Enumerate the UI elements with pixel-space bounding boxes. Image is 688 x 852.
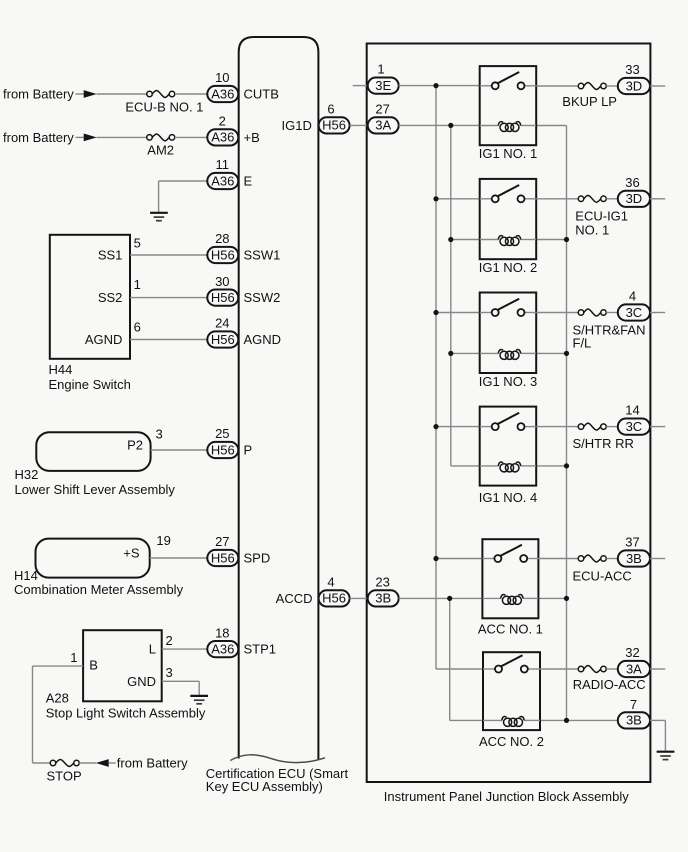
wire coil feed bus (vertical x=450.8) — [450, 125, 452, 466]
svg-text:IG1 NO. 1: IG1 NO. 1 — [479, 146, 538, 161]
svg-text:27: 27 — [375, 101, 389, 116]
switch lever IG1 NO. 3 — [498, 299, 520, 310]
svg-text:14: 14 — [625, 403, 639, 418]
wire fuse to connector (S/HTR&FAN F/L row) — [606, 312, 618, 314]
wire relay to fuse (RADIO-ACC row) — [540, 668, 578, 670]
svg-text:STOP: STOP — [47, 769, 82, 784]
svg-text:7: 7 — [630, 697, 637, 712]
svg-text:ECU-B NO. 1: ECU-B NO. 1 — [125, 100, 203, 115]
svg-text:GND: GND — [127, 674, 156, 689]
wire STOP fuse to arrow — [79, 762, 96, 764]
wire IG1 NO. 1 switch feed inside box — [480, 85, 492, 87]
svg-text:3B: 3B — [375, 591, 391, 606]
svg-text:P: P — [244, 443, 253, 458]
wire switch feed ACC NO.2 — [436, 668, 483, 670]
wire fuse to connector (ECU-ACC row) — [606, 558, 618, 560]
wire output stub (S/HTR RR row) — [650, 426, 665, 428]
svg-text:H56: H56 — [211, 247, 235, 262]
wire IG1 NO. 1 coil feed inside box — [480, 125, 499, 127]
svg-text:6: 6 — [134, 319, 141, 334]
wire IG1 NO. 3 coil feed inside box — [480, 352, 499, 354]
switch lever IG1 NO. 1 — [498, 72, 520, 83]
svg-text:H32: H32 — [15, 467, 39, 482]
coil IG1 NO. 4 — [498, 462, 520, 472]
wire coil output ACC NO.2 to 3B pin 7 — [540, 719, 618, 721]
svg-text:A36: A36 — [211, 86, 234, 101]
svg-text:ACCD: ACCD — [276, 591, 313, 606]
connector A36 pin 18 (STP1) — [207, 625, 238, 657]
wire ACC NO. 2 coil feed inside box — [483, 719, 502, 721]
fuse ECU-ACC — [573, 555, 632, 584]
wire relay to fuse (ECU-IG1 NO. 1 row) — [536, 198, 578, 200]
svg-text:SSW2: SSW2 — [244, 290, 281, 305]
svg-text:3A: 3A — [626, 661, 642, 676]
connector 3A pin 32 (RADIO-ACC) — [618, 645, 650, 677]
svg-text:H56: H56 — [322, 591, 346, 606]
svg-text:18: 18 — [215, 625, 229, 640]
svg-text:A28: A28 — [46, 690, 69, 705]
svg-text:ECU-IG1: ECU-IG1 — [575, 208, 628, 223]
fuse STOP — [47, 760, 82, 784]
svg-text:Stop Light Switch Assembly: Stop Light Switch Assembly — [46, 706, 206, 721]
coil ACC NO. 2 — [502, 717, 524, 727]
svg-text:E: E — [244, 174, 253, 189]
svg-text:+B: +B — [244, 130, 260, 145]
connector 3B pin 37 (ECU-ACC) — [618, 535, 650, 567]
relay ACC NO. 2 — [483, 652, 540, 730]
relay IG1 NO. 1 — [480, 66, 537, 145]
wire ACC coil feed (vertical x=449.7) — [449, 598, 451, 720]
relay IG1 NO. 3 — [480, 293, 537, 374]
svg-text:3E: 3E — [375, 78, 391, 93]
svg-text:CUTB: CUTB — [244, 87, 279, 102]
fuse S/HTR RR — [573, 423, 634, 451]
junction 3B/ACC-1 coil — [447, 596, 452, 601]
wire switch feed IG1 NO.4 — [436, 426, 480, 428]
wire A28 L to A36 (STP1) — [162, 648, 208, 650]
connector 3B pin 23 — [368, 574, 399, 606]
svg-text:Instrument Panel Junction Bloc: Instrument Panel Junction Block Assembly — [384, 789, 629, 804]
wire coil output IG1 NO.4 — [536, 465, 566, 467]
svg-text:3C: 3C — [626, 419, 643, 434]
svg-text:IG1 NO. 4: IG1 NO. 4 — [479, 490, 538, 505]
wire IG1 NO. 4 switch feed inside box — [480, 426, 492, 428]
wire arrow to fuse (ECU-B NO. 1 row) — [97, 93, 147, 95]
svg-text:1: 1 — [134, 277, 141, 292]
wire output stub (ECU-IG1 NO. 1 row) — [650, 198, 665, 200]
wire stub into 3E — [353, 85, 368, 87]
switch lever IG1 NO. 2 — [498, 185, 520, 196]
svg-text:SS2: SS2 — [98, 290, 123, 305]
wire coil feed IG1 NO.3 — [451, 352, 480, 354]
wire ACC NO. 2 switch output inside box — [528, 668, 540, 670]
svg-text:25: 25 — [215, 426, 229, 441]
coil IG1 NO. 3 — [498, 350, 520, 360]
connector H56 pin 4 (ACCD) — [319, 574, 350, 606]
wire fuse to connector (RADIO-ACC row) — [606, 668, 618, 670]
svg-text:H56: H56 — [322, 118, 346, 133]
svg-text:B: B — [89, 658, 98, 673]
junction 3A/IG1-1 coil — [448, 123, 453, 128]
svg-text:SS1: SS1 — [98, 247, 123, 262]
fuse ECU-IG1 NO. 1 — [575, 195, 628, 237]
ground (junction block return) — [657, 752, 675, 760]
wire coil output ACC NO.1 — [538, 597, 566, 599]
fuse ECU-B NO. 1 — [125, 91, 203, 115]
connector 3C pin 14 (S/HTR RR) — [618, 403, 650, 435]
fuse S/HTR&FAN F/L — [573, 309, 646, 350]
switch lever ACC NO. 2 — [501, 655, 523, 666]
arrow from Battery (AM2 row) — [84, 134, 97, 142]
engine switch H44 — [49, 235, 131, 392]
svg-text:36: 36 — [625, 175, 639, 190]
svg-text:H44: H44 — [49, 362, 73, 377]
wire switch feed IG1 NO.3 — [436, 312, 480, 314]
svg-text:30: 30 — [215, 274, 229, 289]
svg-text:H56: H56 — [211, 442, 235, 457]
svg-text:P2: P2 — [127, 438, 143, 453]
svg-text:Lower Shift Lever Assembly: Lower Shift Lever Assembly — [15, 482, 176, 497]
svg-text:from Battery: from Battery — [3, 130, 74, 145]
wire H44 to H56 (AGND) — [130, 339, 207, 341]
relay ACC NO. 1 — [482, 539, 538, 618]
wire IG1 NO. 4 switch output inside box — [525, 426, 537, 428]
wire switch feed IG1 NO.2 — [436, 198, 480, 200]
switch contacts ACC NO. 1 — [494, 555, 501, 562]
wire fuse to connector (S/HTR RR row) — [606, 426, 618, 428]
svg-text:28: 28 — [215, 231, 229, 246]
wire coil feed IG1 NO.2 — [451, 239, 480, 241]
junction ret ACC-1 — [564, 596, 569, 601]
connector A36 pin 2 (+B) — [207, 114, 238, 146]
svg-text:AM2: AM2 — [147, 143, 174, 158]
junction 3E/IG1-1 — [433, 83, 438, 88]
svg-text:37: 37 — [625, 535, 639, 550]
svg-text:S/HTR RR: S/HTR RR — [573, 436, 634, 451]
svg-text:24: 24 — [215, 316, 229, 331]
junction IG1-3 coil — [448, 351, 453, 356]
junction ret IG1-3 — [564, 351, 569, 356]
connector 3C pin 4 (S/HTR&FAN F/L) — [618, 289, 650, 321]
svg-text:11: 11 — [216, 157, 230, 172]
wire IG1 NO. 1 coil output inside box — [521, 125, 537, 127]
wire relay to fuse (BKUP LP row) — [536, 85, 578, 87]
connector 3E pin 1 — [368, 61, 399, 93]
connector H56 pin 6 (IG1D) — [319, 101, 350, 133]
svg-text:3D: 3D — [626, 191, 643, 206]
switch lever ACC NO. 1 — [500, 545, 522, 556]
svg-text:AGND: AGND — [244, 332, 282, 347]
wire coil output IG1 NO.2 — [536, 239, 566, 241]
ground (A28 GND) — [190, 696, 208, 704]
wire relay to fuse (S/HTR&FAN F/L row) — [536, 312, 578, 314]
svg-text:33: 33 — [625, 62, 639, 77]
lower shift lever assembly H32 — [15, 432, 176, 497]
wire 3A row to relay IG1 NO.1 coil — [399, 124, 480, 126]
svg-text:6: 6 — [327, 101, 334, 116]
connector H56 pin 28 (SSW1) — [207, 231, 238, 263]
wire IG1 NO. 3 switch feed inside box — [480, 312, 492, 314]
svg-text:SPD: SPD — [244, 551, 271, 566]
svg-text:IG1 NO. 3: IG1 NO. 3 — [479, 374, 538, 389]
wire H32 to H56 (P) — [151, 449, 208, 451]
svg-text:ECU-ACC: ECU-ACC — [573, 569, 632, 584]
wire ACC NO. 1 coil feed inside box — [482, 597, 501, 599]
wire ACC NO. 1 switch feed inside box — [482, 558, 494, 560]
wire 3B row to ACC NO.1 coil — [399, 597, 483, 599]
Instrument Panel Junction Block Assembly outline — [367, 44, 651, 783]
svg-text:BKUP LP: BKUP LP — [562, 94, 617, 109]
wire IG1 NO. 2 coil feed inside box — [480, 239, 499, 241]
svg-text:4: 4 — [327, 574, 334, 589]
svg-text:Engine Switch: Engine Switch — [49, 377, 131, 392]
wire IG1 NO. 1 switch output inside box — [525, 85, 537, 87]
junction ret IG1-4 — [564, 463, 569, 468]
svg-text:SSW1: SSW1 — [244, 248, 281, 263]
svg-text:H14: H14 — [14, 568, 38, 583]
connector 3B pin 7 (coil return) — [618, 697, 650, 729]
fuse BKUP LP — [562, 83, 617, 109]
junction ACC-1 sw — [433, 556, 438, 561]
wire H44 to H56 (SSW1) — [130, 254, 207, 256]
wire ACCD to 3B — [350, 597, 368, 599]
wire relay to fuse (ECU-ACC row) — [538, 558, 578, 560]
wire ACC NO. 2 coil output inside box — [524, 719, 540, 721]
svg-text:23: 23 — [375, 574, 389, 589]
junction IG1-4 sw — [433, 424, 438, 429]
wire from-Battery stub (AM2 row) — [76, 136, 86, 138]
wire ACC NO. 2 switch feed inside box — [483, 668, 495, 670]
svg-text:1: 1 — [70, 650, 77, 665]
relay IG1 NO. 4 — [480, 407, 537, 486]
coil IG1 NO. 1 — [498, 122, 520, 132]
wire fuse to connector (ECU-B NO. 1 row) — [175, 93, 208, 95]
svg-text:3A: 3A — [375, 118, 391, 133]
svg-text:IG1D: IG1D — [282, 118, 312, 133]
svg-text:2: 2 — [219, 114, 226, 129]
svg-text:3B: 3B — [626, 551, 642, 566]
connector H56 pin 24 (AGND) — [207, 316, 238, 348]
wire 3B pin 7 to ground — [650, 719, 665, 721]
wire fuse to connector (AM2 row) — [175, 136, 208, 138]
svg-text:NO. 1: NO. 1 — [575, 223, 609, 238]
connector H56 pin 25 (P) — [207, 426, 238, 458]
wire relay to fuse (S/HTR RR row) — [536, 426, 578, 428]
svg-text:10: 10 — [215, 70, 229, 85]
wire IG1D to 3A — [350, 124, 368, 126]
svg-text:3: 3 — [156, 427, 163, 442]
svg-text:2: 2 — [166, 633, 173, 648]
wire IG1 NO. 4 coil output inside box — [521, 465, 537, 467]
wire coil return bus (vertical x=566.5) — [566, 126, 568, 721]
coil IG1 NO. 2 — [498, 236, 520, 246]
svg-text:Combination Meter Assembly: Combination Meter Assembly — [14, 582, 184, 597]
connector 3A pin 27 — [368, 101, 399, 133]
junction IG1-2 coil — [448, 237, 453, 242]
junction ret IG1-2 — [564, 237, 569, 242]
wire coil output IG1 NO.1 — [536, 125, 566, 127]
svg-text:3D: 3D — [626, 78, 643, 93]
switch contacts IG1 NO. 4 — [492, 423, 499, 430]
wire E row to ground — [159, 180, 208, 182]
svg-text:H56: H56 — [211, 332, 235, 347]
svg-text:from Battery: from Battery — [117, 756, 188, 771]
wire arrow to fuse (AM2 row) — [97, 136, 147, 138]
wire fuse to connector (BKUP LP row) — [606, 85, 618, 87]
wire IG1 NO. 2 coil output inside box — [521, 239, 537, 241]
svg-text:Key ECU Assembly): Key ECU Assembly) — [206, 779, 323, 794]
switch contacts IG1 NO. 1 — [492, 82, 499, 89]
arrow from Battery (STOP row) — [96, 759, 109, 767]
wire H44 to H56 (SSW2) — [130, 297, 207, 299]
svg-text:from Battery: from Battery — [3, 87, 74, 102]
junction IG1-3 sw — [433, 310, 438, 315]
ECU break wavy line — [230, 755, 325, 763]
wire from-Battery stub (ECU-B NO. 1 row) — [76, 93, 86, 95]
wire IG1 NO. 2 switch feed inside box — [480, 198, 492, 200]
wire coil feed ACC NO.2 — [450, 719, 483, 721]
svg-text:H56: H56 — [211, 290, 235, 305]
svg-text:A36: A36 — [211, 173, 234, 188]
wire coil feed IG1 NO.4 — [451, 465, 480, 467]
svg-text:5: 5 — [134, 236, 141, 251]
wire ACC NO. 1 switch output inside box — [527, 558, 538, 560]
wire A28 B to STOP fuse — [33, 665, 84, 667]
wire switch feed ACC NO.1 — [436, 558, 482, 560]
junction ret ACC-2 — [564, 718, 569, 723]
wire output stub (S/HTR&FAN F/L row) — [650, 312, 665, 314]
connector 3D pin 36 (ECU-IG1 NO. 1) — [618, 175, 650, 207]
connector A36 pin 11 (E) — [207, 157, 238, 189]
switch contacts IG1 NO. 2 — [492, 195, 499, 202]
svg-text:32: 32 — [625, 645, 639, 660]
svg-text:3: 3 — [166, 665, 173, 680]
svg-text:STP1: STP1 — [244, 642, 277, 657]
svg-text:3B: 3B — [626, 713, 642, 728]
svg-text:AGND: AGND — [85, 332, 123, 347]
svg-text:27: 27 — [215, 534, 229, 549]
wire arrow stub (STOP row) — [109, 762, 116, 764]
junction IG1-2 sw — [433, 196, 438, 201]
svg-text:H56: H56 — [211, 550, 235, 565]
svg-text:4: 4 — [629, 289, 636, 304]
coil ACC NO. 1 — [501, 595, 523, 605]
wire IG1 NO. 3 coil output inside box — [521, 352, 537, 354]
svg-text:IG1 NO. 2: IG1 NO. 2 — [479, 260, 538, 275]
wire coil output IG1 NO.3 — [536, 352, 566, 354]
wire output stub (ECU-ACC row) — [650, 558, 665, 560]
svg-text:A36: A36 — [211, 130, 234, 145]
wire A28 GND to ground — [162, 680, 200, 682]
svg-text:ACC NO. 2: ACC NO. 2 — [479, 734, 544, 749]
wire fuse to connector (ECU-IG1 NO. 1 row) — [606, 198, 618, 200]
switch lever IG1 NO. 4 — [498, 413, 520, 424]
Certification ECU (Smart Key ECU Assembly) outline — [239, 37, 319, 760]
connector H56 pin 27 (SPD) — [207, 534, 238, 566]
svg-text:+S: +S — [123, 545, 140, 560]
wire IG1 NO. 4 coil feed inside box — [480, 465, 499, 467]
relay IG1 NO. 2 — [480, 179, 537, 259]
fuse RADIO-ACC — [573, 666, 646, 692]
svg-text:L: L — [149, 642, 156, 657]
svg-text:3C: 3C — [626, 305, 643, 320]
ground (E terminal) — [150, 213, 168, 221]
combination meter assembly H14 — [14, 539, 184, 598]
wire output stub (RADIO-ACC row) — [650, 668, 665, 670]
connector 3D pin 33 (BKUP LP) — [618, 62, 650, 94]
svg-text:RADIO-ACC: RADIO-ACC — [573, 677, 646, 692]
svg-text:19: 19 — [156, 533, 170, 548]
svg-text:ACC NO. 1: ACC NO. 1 — [478, 622, 543, 637]
svg-text:F/L: F/L — [573, 335, 592, 350]
fuse AM2 — [147, 134, 175, 158]
wire IG1 NO. 3 switch output inside box — [525, 312, 537, 314]
connector A36 pin 10 (CUTB) — [207, 70, 238, 102]
wire 3E row to relay IG1 NO.1 switch — [399, 85, 480, 87]
wire switch feed bus (vertical x=436) — [435, 86, 437, 669]
wire H14 to H56 (SPD) — [150, 557, 208, 559]
stop light switch assembly A28 — [46, 630, 206, 720]
svg-text:A36: A36 — [211, 641, 234, 656]
switch contacts ACC NO. 2 — [495, 666, 502, 673]
wire output stub (BKUP LP row) — [650, 85, 665, 87]
connector H56 pin 30 (SSW2) — [207, 274, 238, 306]
svg-text:1: 1 — [377, 61, 384, 76]
switch contacts IG1 NO. 3 — [492, 309, 499, 316]
wire ACC NO. 1 coil output inside box — [523, 597, 539, 599]
wire IG1 NO. 2 switch output inside box — [525, 198, 537, 200]
arrow from Battery (ECU-B NO. 1 row) — [84, 90, 97, 98]
